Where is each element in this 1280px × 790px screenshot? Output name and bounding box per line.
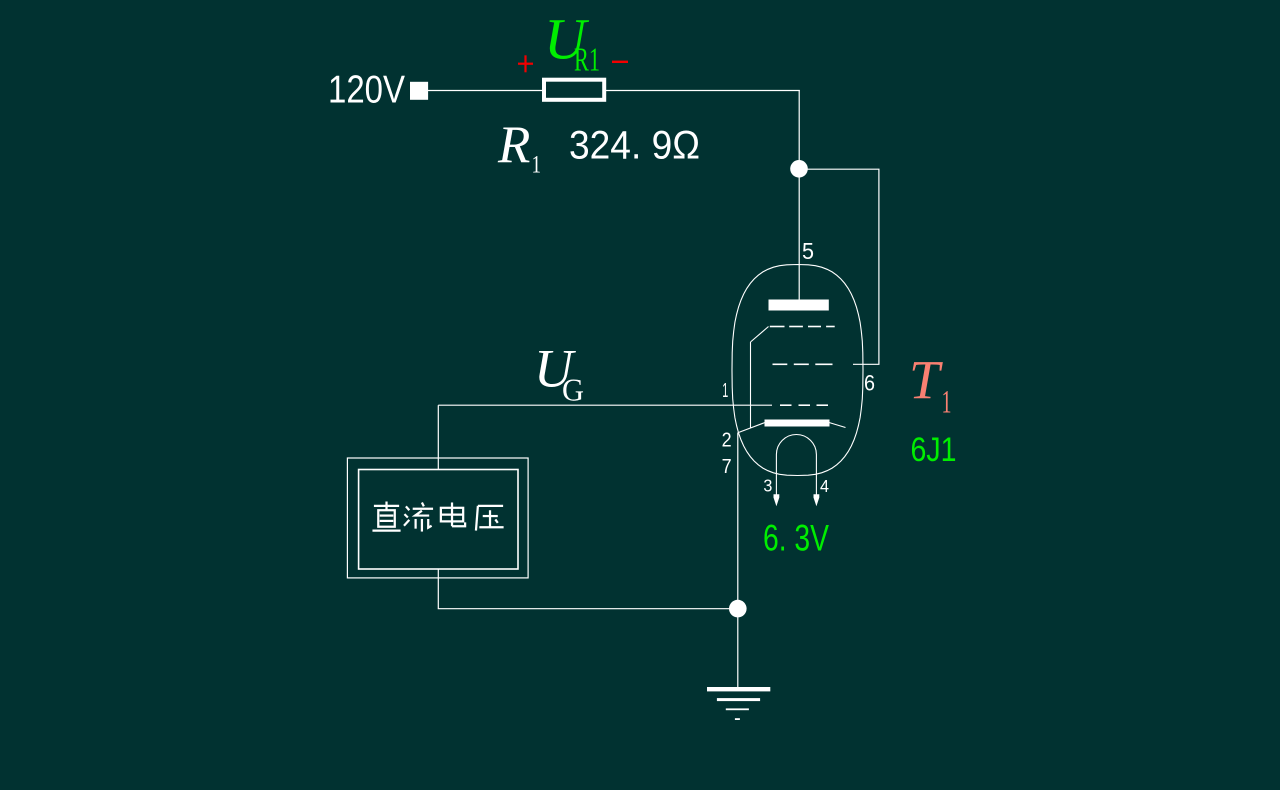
svg-text:G: G <box>562 372 584 408</box>
char ya <box>476 506 504 531</box>
tube T1 envelope <box>732 265 863 476</box>
grid g3 dashes (row 1) <box>770 326 835 328</box>
svg-text:4: 4 <box>820 476 829 496</box>
heater arrow pin 3 <box>774 494 780 506</box>
grid g1 dashes (row 3) <box>780 404 828 406</box>
char dian <box>441 502 465 526</box>
anode plate bar <box>769 300 829 311</box>
label T1 (salmon) <box>909 350 952 421</box>
DC voltage Chinese text (drawn strokes) <box>372 502 503 532</box>
wire cathode to bottom junction <box>737 433 739 609</box>
junction node top <box>790 160 808 178</box>
heater arrow pin 4 <box>814 494 820 506</box>
DC voltage source box inner <box>359 470 518 570</box>
svg-text:6: 6 <box>864 370 875 395</box>
svg-text:6. 3V: 6. 3V <box>763 517 829 559</box>
svg-text:3: 3 <box>763 475 772 495</box>
svg-text:120V: 120V <box>328 69 405 112</box>
grid g2 dashes (row 2) <box>773 363 833 365</box>
svg-text:1: 1 <box>722 380 728 402</box>
heater leg pin 3 <box>775 455 777 498</box>
ground symbol <box>707 687 770 720</box>
polarity minus (red) <box>612 61 628 63</box>
wire U_G feed to grid g1 (pin 1) <box>438 404 772 406</box>
svg-text:1: 1 <box>942 384 952 420</box>
svg-text:R: R <box>497 116 530 174</box>
cathode bar <box>765 420 830 427</box>
internal connection g3 to cathode lead <box>751 327 769 428</box>
wire resistor to top corner <box>606 90 800 92</box>
char zhi <box>372 502 400 531</box>
wire terminal to resistor R1 <box>428 90 543 92</box>
char liu <box>404 502 433 531</box>
wire U_G down to DC box top <box>437 405 439 469</box>
svg-text:324. 9Ω: 324. 9Ω <box>569 123 700 167</box>
heater filament arch <box>776 435 816 455</box>
wire DC box bottom to ground junction <box>438 569 738 609</box>
wire corner down to junction <box>798 90 800 169</box>
svg-text:1: 1 <box>532 152 542 179</box>
cathode left lead <box>739 423 766 433</box>
label R1 <box>497 116 541 179</box>
svg-text:T: T <box>909 350 943 411</box>
heater leg pin 4 <box>815 455 817 498</box>
svg-text:5: 5 <box>802 238 814 264</box>
svg-text:2: 2 <box>722 430 732 452</box>
svg-text:R1: R1 <box>574 42 600 79</box>
label U_R1 (green) <box>544 6 600 78</box>
DC voltage source box outer <box>347 458 528 578</box>
svg-text:7: 7 <box>722 456 732 478</box>
wire junction to ground <box>737 609 739 688</box>
wire junction to pin 6 (right loop) <box>804 169 879 364</box>
label U_G <box>534 338 584 407</box>
cathode right lead <box>829 423 846 428</box>
polarity plus (red) <box>518 55 533 72</box>
terminal square 120V <box>410 82 428 100</box>
wire junction to plate (pin 5) <box>798 169 800 301</box>
ground junction node <box>729 600 747 618</box>
resistor R1 <box>544 80 604 100</box>
svg-text:6J1: 6J1 <box>911 431 957 469</box>
